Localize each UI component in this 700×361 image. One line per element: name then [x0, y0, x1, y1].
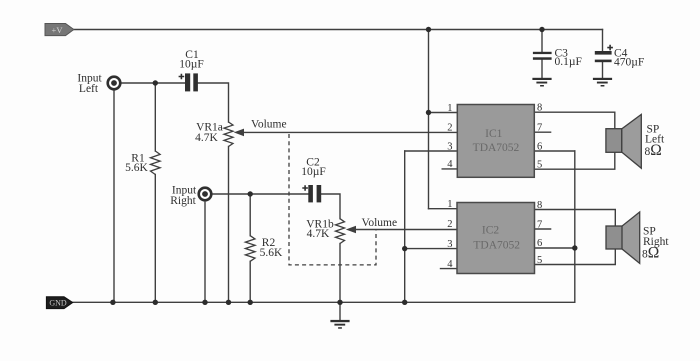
svg-text:1: 1 — [447, 103, 452, 114]
svg-text:IC1: IC1 — [485, 128, 503, 140]
svg-text:Right: Right — [170, 195, 196, 207]
svg-text:TDA7052: TDA7052 — [473, 239, 520, 251]
svg-text:GND: GND — [49, 299, 67, 308]
svg-text:Left: Left — [79, 83, 99, 95]
svg-text:10µF: 10µF — [179, 59, 204, 71]
svg-text:4.7K: 4.7K — [195, 132, 218, 144]
svg-text:Volume: Volume — [362, 217, 398, 229]
svg-text:5.6K: 5.6K — [125, 162, 148, 174]
svg-text:8: 8 — [537, 103, 542, 114]
svg-text:TDA7052: TDA7052 — [473, 142, 520, 154]
svg-text:4.7K: 4.7K — [307, 228, 330, 240]
svg-text:0.1µF: 0.1µF — [555, 56, 582, 68]
svg-text:7: 7 — [537, 123, 542, 134]
svg-text:4: 4 — [447, 259, 453, 270]
svg-text:4: 4 — [447, 159, 453, 170]
svg-text:3: 3 — [447, 141, 452, 152]
svg-text:5: 5 — [537, 160, 542, 171]
svg-text:2: 2 — [447, 123, 452, 134]
svg-text:7: 7 — [537, 219, 542, 230]
svg-text:8: 8 — [537, 200, 542, 211]
svg-text:470µF: 470µF — [614, 56, 644, 68]
svg-text:+V: +V — [52, 25, 64, 35]
svg-text:IC2: IC2 — [482, 225, 500, 237]
svg-text:Volume: Volume — [251, 119, 287, 131]
svg-text:2: 2 — [447, 219, 452, 230]
svg-text:5: 5 — [537, 255, 542, 266]
svg-text:6: 6 — [537, 238, 542, 249]
svg-text:10µF: 10µF — [301, 166, 326, 178]
svg-text:6: 6 — [537, 141, 542, 152]
svg-text:5.6K: 5.6K — [260, 247, 283, 259]
svg-text:1: 1 — [447, 199, 452, 210]
svg-text:3: 3 — [447, 239, 452, 250]
